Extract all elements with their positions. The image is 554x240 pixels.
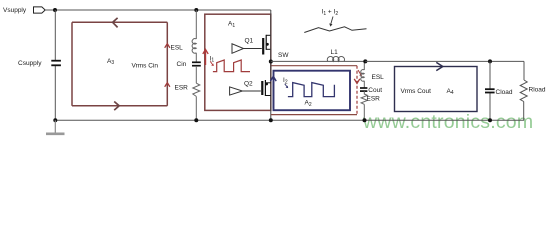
wire output rail — [365, 60, 524, 62]
svg-text:L1: L1 — [331, 49, 339, 56]
box A1 (switch cell) — [205, 14, 271, 110]
resistor ESR (input) — [175, 83, 200, 96]
svg-text:Vrms Cout: Vrms Cout — [401, 88, 432, 95]
node Cout bottom junction — [363, 118, 367, 122]
driver Q2 (gate buffer) — [230, 80, 261, 95]
inductor ESL (output) — [361, 70, 384, 88]
svg-text:Q2: Q2 — [244, 80, 253, 87]
wire — [195, 66, 197, 83]
wire top rail — [45, 9, 271, 11]
svg-text:ESR: ESR — [175, 84, 189, 91]
wire Rload branch — [523, 61, 525, 80]
capacitor Cin — [177, 61, 201, 68]
loop A4 (output ripple loop) — [395, 67, 478, 112]
current arrow I1 — [203, 49, 215, 66]
inductor L1 — [327, 49, 344, 61]
wire bottom rail — [55, 119, 524, 121]
ground — [46, 120, 65, 134]
svg-text:SW: SW — [278, 52, 289, 59]
node Cin bottom junction — [194, 118, 198, 122]
node Cload bottom junction — [488, 118, 492, 122]
svg-text:Q1: Q1 — [245, 38, 254, 45]
svg-text:Cload: Cload — [496, 89, 513, 96]
svg-text:ESR: ESR — [367, 96, 381, 103]
wire Cload branch — [489, 61, 491, 88]
node Vsupply junction — [53, 8, 57, 12]
arrow A4 top (right) — [436, 62, 443, 70]
waveform I2 (low-side current) — [288, 83, 335, 97]
annotation arrow to waveform — [331, 17, 333, 25]
capacitor Csupply — [18, 60, 61, 67]
wire SW node to L1 — [271, 60, 366, 62]
node ground junction — [53, 118, 57, 122]
svg-text:Csupply: Csupply — [18, 60, 42, 67]
svg-text:Rload: Rload — [529, 87, 546, 94]
wire Cin string top — [195, 10, 197, 39]
loop A2 (freewheel loop) — [274, 71, 351, 111]
node Cload top junction — [488, 59, 492, 63]
arrow A3 top (left) — [113, 18, 118, 28]
resistor ESR (output) — [361, 91, 380, 104]
inductor ESL (input) — [171, 39, 197, 54]
node SW — [269, 60, 273, 64]
svg-text:Vsupply: Vsupply — [3, 7, 27, 14]
wire — [195, 53, 197, 62]
svg-text:Cout: Cout — [368, 87, 382, 94]
svg-text:ESL: ESL — [372, 74, 385, 81]
arrow A3 right edge up 2 — [165, 83, 170, 87]
waveform I1 (high-side current) — [213, 60, 250, 72]
transistor Q2 (MOSFET) — [262, 80, 271, 96]
svg-text:ESL: ESL — [171, 44, 184, 51]
wire Cin string bottom — [195, 96, 197, 120]
driver Q1 (gate buffer) — [232, 38, 262, 54]
node Cin top junction — [194, 8, 198, 12]
ripple current path (red dashed into Cout) — [271, 66, 362, 115]
wire Cout string bottom — [363, 104, 365, 120]
node output junction — [363, 59, 367, 63]
arrow A3 right edge up 1 — [165, 44, 170, 48]
wire main vertical (drain/source chain) — [270, 10, 272, 120]
node Q2 source to ground rail — [269, 118, 273, 122]
current arrow I2 — [270, 76, 288, 108]
svg-text:Vrms Cin: Vrms Cin — [132, 62, 159, 69]
arrow A3 bottom (right) — [114, 102, 119, 111]
svg-text:Cin: Cin — [177, 61, 187, 68]
resistor Rload — [520, 80, 546, 102]
net label Vsupply — [3, 7, 45, 14]
capacitor Cload — [485, 89, 513, 96]
wire Cout string top — [363, 61, 365, 70]
wire left vertical (Csupply branch) — [54, 10, 56, 60]
transistor Q1 (MOSFET) — [263, 35, 271, 55]
svg-text:www.cntronics.com: www.cntronics.com — [362, 111, 533, 133]
waveform I1+I2 (inductor current) — [304, 27, 366, 33]
capacitor Cout — [360, 87, 382, 94]
loop A3 (input current loop) — [72, 22, 167, 106]
